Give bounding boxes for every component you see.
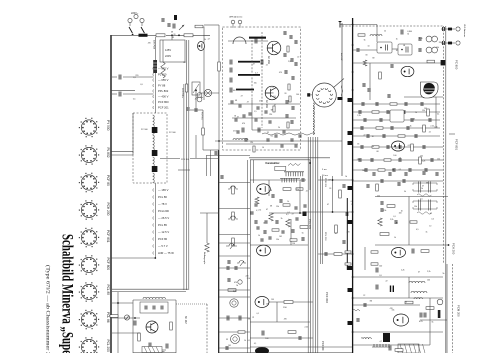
svg-text:33: 33 xyxy=(173,34,175,36)
wire xyxy=(318,253,352,255)
resistor R5 xyxy=(218,62,221,71)
svg-text:22: 22 xyxy=(429,132,431,134)
capacitor C59 xyxy=(187,107,189,111)
tube socket PCL 200 xyxy=(81,339,96,353)
svg-text:33: 33 xyxy=(361,337,363,339)
svg-text:33: 33 xyxy=(365,55,367,57)
svg-text:0,5: 0,5 xyxy=(399,169,402,171)
dashed wire xyxy=(251,40,253,100)
wire xyxy=(435,97,437,128)
feedthrough capacitor bar xyxy=(249,37,266,39)
wire xyxy=(319,176,321,264)
coil L4 xyxy=(411,291,427,293)
resistor R23 xyxy=(339,190,342,198)
tube socket PCF 80 xyxy=(81,175,96,190)
capacitor C68 xyxy=(168,23,170,27)
wire xyxy=(123,76,154,78)
svg-text:5k: 5k xyxy=(302,233,304,235)
capacitor C18 xyxy=(226,346,228,350)
svg-text:PC 900: PC 900 xyxy=(455,60,459,70)
dashed wire xyxy=(261,32,263,128)
resistor R41 xyxy=(345,251,351,253)
voltage selector box xyxy=(160,40,185,62)
svg-text:47: 47 xyxy=(418,272,420,274)
ground G1 xyxy=(160,350,166,353)
junction xyxy=(352,276,354,278)
capacitor C64 xyxy=(221,175,223,179)
resistor R26 xyxy=(284,301,293,304)
resistor R31 xyxy=(380,233,389,236)
right border wire xyxy=(445,26,447,353)
svg-text:100: 100 xyxy=(296,94,299,96)
lamp La1 xyxy=(204,89,211,96)
capacitor CU17 xyxy=(245,138,247,142)
capacitor C65 xyxy=(228,260,230,264)
svg-text:1k: 1k xyxy=(410,125,412,127)
wire xyxy=(219,347,250,349)
svg-text:2,2k: 2,2k xyxy=(270,87,273,89)
wire xyxy=(228,40,268,42)
wire xyxy=(369,63,371,100)
capacitor C32 xyxy=(276,220,278,224)
heater tap LDR — 75 W xyxy=(152,252,155,255)
wire xyxy=(420,319,447,321)
resistor R24 xyxy=(335,225,338,233)
capacitor CV1 xyxy=(255,203,257,207)
capacitor CU2 xyxy=(249,112,251,116)
resistor R11 xyxy=(228,289,236,292)
svg-text:— 165 V: — 165 V xyxy=(158,188,169,192)
transformer core blob 3 xyxy=(152,166,158,172)
svg-text:PPL 802: PPL 802 xyxy=(158,89,169,93)
wire xyxy=(353,62,443,64)
svg-text:PCM 200: PCM 200 xyxy=(457,305,461,317)
wire xyxy=(219,208,250,210)
svg-text:bei UHF: bei UHF xyxy=(340,53,342,62)
VHF box top dashed border xyxy=(342,25,443,27)
resistor R12 xyxy=(423,125,426,132)
svg-text:0,5: 0,5 xyxy=(379,275,382,277)
capacitor C17 xyxy=(239,316,241,321)
svg-text:100: 100 xyxy=(271,92,274,94)
resistor R10 xyxy=(394,119,401,121)
tube socket PCF 800 xyxy=(81,257,96,272)
svg-text:1k: 1k xyxy=(396,38,398,40)
wire xyxy=(353,297,443,299)
svg-text:2,2k: 2,2k xyxy=(434,126,437,128)
resistor R15b xyxy=(427,60,435,63)
svg-text:5k: 5k xyxy=(432,322,434,324)
capacitor CU8 xyxy=(239,104,241,108)
wire xyxy=(210,150,212,176)
resistor R18 xyxy=(378,169,385,171)
junction xyxy=(309,162,311,164)
mains wire xyxy=(111,34,156,36)
svg-text:— 655 V: — 655 V xyxy=(158,78,169,82)
capacitor C36 xyxy=(399,158,401,162)
coil wavy horizontal xyxy=(262,133,315,135)
wire xyxy=(392,48,398,50)
capacitor C12 xyxy=(291,120,293,124)
svg-text:68: 68 xyxy=(271,110,273,112)
heater tap — 970 V xyxy=(152,67,155,70)
dashed wire xyxy=(206,304,208,353)
potentiometer P2 xyxy=(124,315,129,320)
capacitor C26 xyxy=(419,48,421,52)
svg-text:PCL 85: PCL 85 xyxy=(158,223,167,227)
wire xyxy=(408,277,410,298)
svg-text:1k: 1k xyxy=(415,112,417,114)
svg-text:33: 33 xyxy=(172,37,174,39)
wire xyxy=(133,299,176,301)
capacitor C56 xyxy=(367,184,369,188)
capacitor C55 xyxy=(436,172,438,176)
resistor R17 xyxy=(419,157,422,164)
heater tap — 26.5 V xyxy=(152,217,155,220)
terminal T2 xyxy=(339,22,342,28)
resistor R36 xyxy=(395,349,403,352)
junction xyxy=(171,34,173,36)
svg-text:220: 220 xyxy=(269,114,272,116)
capacitor C13 xyxy=(362,102,364,106)
svg-text:Bildfangregler: Bildfangregler xyxy=(203,252,205,265)
svg-text:PCF 802: PCF 802 xyxy=(325,292,329,303)
wire xyxy=(129,23,131,26)
svg-text:2,2k: 2,2k xyxy=(288,61,291,63)
svg-text:68: 68 xyxy=(248,319,250,321)
wire xyxy=(195,135,197,158)
coil L1 xyxy=(233,139,248,141)
svg-text:1k: 1k xyxy=(287,201,289,203)
svg-text:68: 68 xyxy=(270,190,272,192)
wire xyxy=(232,117,296,119)
transformer winding W1 xyxy=(153,115,155,134)
bottom tube blob xyxy=(255,347,269,353)
svg-text:125V: 125V xyxy=(165,48,171,52)
svg-text:PCF 80: PCF 80 xyxy=(181,159,189,161)
wire xyxy=(219,267,250,269)
wire xyxy=(175,300,177,353)
wire pair line C xyxy=(183,84,185,290)
svg-text:33: 33 xyxy=(226,339,228,341)
heater tap PCF 80 xyxy=(152,238,155,241)
resistor R8 xyxy=(232,212,235,220)
heater tap PL 500 xyxy=(152,73,155,76)
capacitor C29d xyxy=(388,94,390,98)
VHF input box xyxy=(377,42,392,53)
svg-text:15k: 15k xyxy=(254,82,257,84)
svg-text:47: 47 xyxy=(247,101,249,103)
svg-text:22: 22 xyxy=(297,56,299,58)
capacitor C52 xyxy=(389,172,391,176)
capacitor C31 xyxy=(387,145,389,149)
svg-text:100: 100 xyxy=(393,155,396,157)
capacitor C20 xyxy=(153,306,155,310)
resistor R34 xyxy=(405,301,413,304)
svg-text:0,1: 0,1 xyxy=(351,201,354,203)
svg-text:PCF 800: PCF 800 xyxy=(158,100,169,104)
capacitor C39 xyxy=(393,168,395,172)
junction xyxy=(352,89,354,91)
svg-text:10: 10 xyxy=(368,45,370,47)
svg-text:33: 33 xyxy=(267,132,269,134)
capacitor C35 xyxy=(371,158,373,162)
heater tap — 400 V xyxy=(152,95,155,98)
svg-text:— 12.5 V: — 12.5 V xyxy=(158,230,169,234)
resistor R16 xyxy=(384,159,391,161)
wire xyxy=(247,160,249,353)
capacitor C29b xyxy=(391,64,393,68)
ferrite bead 1 xyxy=(448,28,452,31)
isolation transformer TR2 xyxy=(197,93,202,98)
capacitor C24 xyxy=(166,344,168,349)
UHF antenna jack b xyxy=(238,20,242,24)
wire xyxy=(353,103,440,105)
svg-text:47: 47 xyxy=(422,185,424,187)
wire xyxy=(441,28,455,30)
trimmer T3 xyxy=(238,280,242,284)
svg-text:VHF-Antenne: VHF-Antenne xyxy=(463,24,466,38)
junction xyxy=(218,140,220,142)
svg-text:0,1: 0,1 xyxy=(287,212,290,214)
resistor R25 xyxy=(334,253,342,256)
wire xyxy=(253,160,255,183)
wire xyxy=(117,292,119,353)
wire xyxy=(353,331,443,333)
wire xyxy=(353,159,443,161)
capacitor C45 xyxy=(381,208,383,212)
wire xyxy=(340,24,377,26)
svg-text:0,1: 0,1 xyxy=(286,214,289,216)
wire xyxy=(290,219,292,245)
bus blob xyxy=(348,220,353,224)
wire xyxy=(251,100,253,130)
capacitor C15 xyxy=(235,266,237,270)
svg-text:47: 47 xyxy=(253,63,255,65)
junction xyxy=(195,89,197,91)
resistor R16z xyxy=(363,60,367,66)
svg-text:UHF-Antenne: UHF-Antenne xyxy=(229,15,243,18)
resistor R40 dark xyxy=(153,60,157,73)
transformer core blob 2 xyxy=(152,150,158,156)
svg-text:68: 68 xyxy=(171,32,173,34)
main right bus wire xyxy=(352,18,354,353)
power switch S1 xyxy=(129,27,144,33)
wire xyxy=(200,92,219,94)
resistor R35b dark xyxy=(438,310,441,318)
transformer winding W3 xyxy=(153,157,155,170)
wire xyxy=(219,242,250,244)
capacitor C22 xyxy=(411,118,413,122)
capacitor C33 xyxy=(292,229,294,233)
tube socket PCL 85 xyxy=(81,284,96,299)
svg-text:470: 470 xyxy=(234,282,237,284)
wire xyxy=(171,35,173,40)
resistor R13 xyxy=(138,333,141,341)
wire xyxy=(353,304,420,306)
heater tap PCF 201 xyxy=(152,106,155,109)
capacitor C16 xyxy=(421,102,423,106)
svg-text:1k: 1k xyxy=(351,204,353,206)
bus blob xyxy=(348,131,353,135)
svg-text:22: 22 xyxy=(363,295,365,297)
wire xyxy=(206,213,208,243)
junction xyxy=(352,44,354,46)
resistor R20 xyxy=(286,219,290,227)
svg-text:2,2k: 2,2k xyxy=(233,291,236,293)
capacitor C26 xyxy=(407,126,409,130)
selector contact comb 2 xyxy=(280,178,300,182)
wire xyxy=(376,25,378,43)
svg-text:470: 470 xyxy=(233,131,236,133)
capacitor C57 xyxy=(398,182,400,186)
heater tap — 165 V xyxy=(152,189,155,192)
capacitor C19 xyxy=(403,110,405,114)
svg-text:0,1: 0,1 xyxy=(257,313,260,315)
resistor R46 xyxy=(255,197,259,204)
svg-text:4,7: 4,7 xyxy=(208,39,211,41)
resistor R14 xyxy=(170,322,173,330)
heater chain lower wire xyxy=(154,183,156,258)
wire xyxy=(219,234,250,236)
potentiometer P3 xyxy=(226,244,237,250)
svg-text:220: 220 xyxy=(439,42,442,44)
svg-text:47: 47 xyxy=(274,104,276,106)
svg-text:68: 68 xyxy=(377,151,379,153)
svg-text:220: 220 xyxy=(357,159,360,161)
wire xyxy=(250,179,306,181)
resistor R30 xyxy=(378,218,382,226)
svg-text:PCL 86: PCL 86 xyxy=(106,312,110,323)
wire xyxy=(276,302,278,322)
coupling coil chain xyxy=(313,103,314,135)
wire xyxy=(269,301,313,303)
capacitor C19 xyxy=(145,306,147,310)
wire xyxy=(353,169,443,171)
svg-text:0,5: 0,5 xyxy=(416,229,419,231)
wire xyxy=(133,352,176,353)
UHF antenna jack a xyxy=(231,20,235,24)
capacitor CU15 xyxy=(281,144,283,148)
resistor R27 xyxy=(288,331,296,334)
svg-text:PCH 200: PCH 200 xyxy=(452,243,456,255)
svg-text:0,1: 0,1 xyxy=(133,77,136,79)
selector wiper zigzag xyxy=(288,164,301,166)
svg-text:100: 100 xyxy=(419,38,422,40)
bus blob xyxy=(348,186,353,190)
svg-text:PCF 80: PCF 80 xyxy=(106,175,110,186)
resistor R13 xyxy=(398,135,405,137)
heater tap PY 88 xyxy=(152,84,155,87)
svg-text:470: 470 xyxy=(284,319,287,321)
wire xyxy=(219,317,250,319)
resistor R15 xyxy=(411,144,414,151)
capacitor C39 xyxy=(325,252,327,256)
wire xyxy=(204,24,219,26)
capacitor C38 xyxy=(346,212,348,216)
wire xyxy=(250,337,313,339)
svg-text:0,1: 0,1 xyxy=(437,114,440,116)
wire xyxy=(141,23,143,26)
svg-text:15k: 15k xyxy=(383,210,386,212)
capacitor C53 xyxy=(405,172,407,176)
svg-text:47: 47 xyxy=(241,96,243,98)
svg-text:470: 470 xyxy=(148,43,151,45)
svg-text:10: 10 xyxy=(405,301,407,303)
capacitor CU7 xyxy=(243,114,245,118)
svg-text:22: 22 xyxy=(364,134,366,136)
junction xyxy=(144,34,146,36)
svg-text:0,1: 0,1 xyxy=(254,343,257,345)
svg-text:47: 47 xyxy=(327,204,329,206)
svg-text:— 970 V: — 970 V xyxy=(158,67,169,71)
svg-text:LDR — 75 W: LDR — 75 W xyxy=(158,251,174,255)
right dashed border wire xyxy=(443,26,445,264)
wire xyxy=(219,331,250,333)
bus blob xyxy=(348,321,353,325)
wire bundle line 1 xyxy=(307,137,309,353)
capacitor C35 xyxy=(264,230,266,234)
wire xyxy=(268,180,270,196)
resistor R35 xyxy=(426,307,434,310)
svg-text:100: 100 xyxy=(233,90,236,92)
svg-text:22: 22 xyxy=(266,65,268,67)
capacitor CV6 xyxy=(282,230,284,234)
wire xyxy=(215,140,342,142)
discriminator filter xyxy=(413,183,437,191)
electrolytic C49 xyxy=(383,333,390,342)
svg-text:0,5: 0,5 xyxy=(133,99,136,101)
capacitor C1 xyxy=(119,75,121,80)
resistor R18 xyxy=(296,188,303,190)
svg-text:1k: 1k xyxy=(244,340,246,342)
capacitor C5 xyxy=(261,60,263,65)
capacitor CU11 xyxy=(275,134,277,138)
tube socket PL 802 xyxy=(81,147,96,162)
svg-text:68: 68 xyxy=(270,205,272,207)
capacitor C27 xyxy=(401,30,403,35)
capacitor CU16 xyxy=(295,144,297,148)
svg-text:15k: 15k xyxy=(392,310,395,312)
svg-text:22: 22 xyxy=(386,281,388,283)
svg-text:— 78 V: — 78 V xyxy=(158,202,167,206)
capacitor C40 xyxy=(262,331,264,336)
wire xyxy=(306,211,352,213)
capacitor C25 xyxy=(419,37,421,41)
svg-text:5k: 5k xyxy=(443,273,445,275)
resistor R38 xyxy=(272,229,279,231)
resistor R43 xyxy=(371,251,378,253)
wire xyxy=(218,25,220,150)
wire bundle line 4 xyxy=(314,137,316,353)
svg-text:10: 10 xyxy=(263,223,265,225)
svg-text:10: 10 xyxy=(262,147,264,149)
heater tap PCL 86 xyxy=(152,196,155,199)
capacitor C44 xyxy=(381,201,383,205)
svg-text:1,5: 1,5 xyxy=(254,111,257,113)
capacitor C25 xyxy=(391,126,393,130)
tube V7 xyxy=(393,314,408,326)
svg-text:15k: 15k xyxy=(276,239,279,241)
vertical bus wire xyxy=(218,150,220,353)
capacitor C36 xyxy=(255,220,257,224)
wire xyxy=(332,176,334,212)
svg-text:PCF 801: PCF 801 xyxy=(455,139,459,150)
svg-text:33: 33 xyxy=(284,93,286,95)
bus parallel wire xyxy=(346,198,348,270)
dotted wire xyxy=(176,303,207,305)
selector pill box xyxy=(275,166,286,170)
